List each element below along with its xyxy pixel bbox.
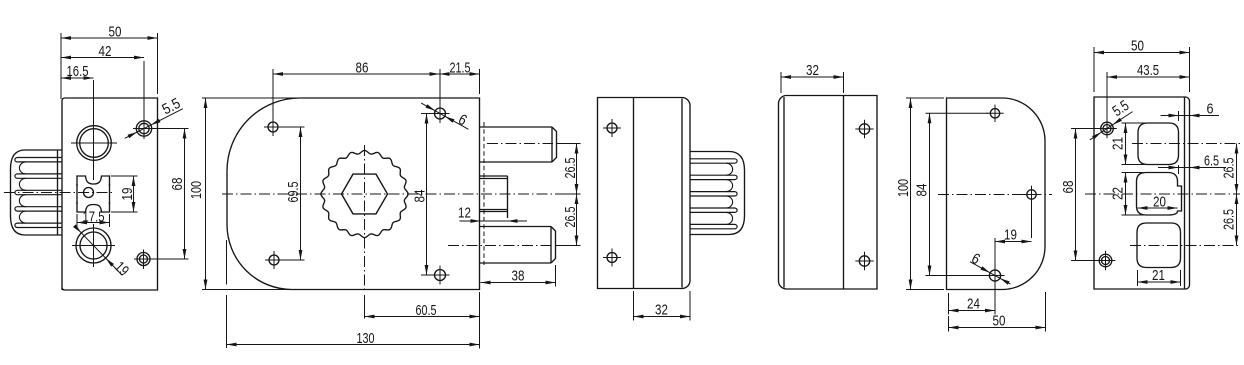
dim 38 <box>555 265 557 287</box>
svg-text:60.5: 60.5 <box>416 302 437 319</box>
svg-text:26.5: 26.5 <box>562 158 579 179</box>
dim 32 view3 <box>633 291 635 321</box>
view5 outline <box>947 98 1046 290</box>
dim 24 view5 <box>948 293 950 315</box>
svg-text:32: 32 <box>655 302 668 319</box>
svg-text:16.5: 16.5 <box>67 63 89 80</box>
svg-text:19: 19 <box>1004 227 1017 244</box>
dim 20 view6 hole2 width <box>1138 207 1178 209</box>
ext 86 left <box>272 69 274 119</box>
view2 case outline <box>227 98 480 290</box>
dim 26.5 view6 top <box>1236 144 1238 195</box>
dim 32 view4 <box>780 72 782 93</box>
view6 fold line <box>1184 98 1186 289</box>
view1 horizontal centerline <box>4 192 114 194</box>
dim 21 view6 hole3 width <box>1137 270 1139 286</box>
dim 69.5 <box>280 126 305 128</box>
svg-text:100: 100 <box>188 181 205 199</box>
view6 screw hole bottom <box>1099 254 1112 267</box>
svg-text:6.5: 6.5 <box>1204 153 1219 170</box>
svg-text:43.5: 43.5 <box>1137 62 1159 79</box>
spindle hub with concave notches <box>77 176 110 186</box>
dim 60.5 <box>479 292 481 349</box>
view1 big bottom circle <box>76 228 111 263</box>
view2 hole bottom-left <box>269 255 279 265</box>
svg-text:68: 68 <box>1060 181 1077 194</box>
svg-text:26.5: 26.5 <box>1221 209 1238 230</box>
leader dia 19 diagonal <box>75 226 122 275</box>
view3 flute ridges <box>690 158 735 160</box>
dim 86 / 21.5 <box>479 69 481 94</box>
svg-text:50: 50 <box>993 313 1006 330</box>
dim 100 view2 <box>205 98 207 290</box>
svg-text:84: 84 <box>412 190 429 203</box>
svg-text:100: 100 <box>895 179 912 197</box>
hole3 centerline <box>1130 245 1240 247</box>
view1 top circle crosshair <box>71 142 117 144</box>
hole1 centerline <box>1132 143 1240 145</box>
bottom bolt centerline <box>448 245 552 247</box>
svg-text:86: 86 <box>356 60 369 77</box>
svg-text:50: 50 <box>109 24 122 41</box>
ext 86/21.5 <box>439 69 441 106</box>
leader dia 5.5 view6 <box>1090 112 1133 140</box>
dim 50 view5 <box>948 316 950 332</box>
svg-text:20: 20 <box>1153 194 1166 211</box>
130-dim extension at left <box>226 240 228 285</box>
bottom circle crosshair <box>72 245 115 247</box>
dim 26.5 bottom <box>556 245 581 247</box>
view3 outline <box>598 98 691 289</box>
top bolt centerline <box>487 143 553 145</box>
scalloped rosette <box>321 150 408 237</box>
view6 hole 2 (middle square) <box>1137 173 1182 216</box>
dim 19 (hub height) <box>111 175 138 177</box>
dim 17.5 (hub width) <box>76 214 78 227</box>
dim 6.5 view6 <box>1158 167 1226 169</box>
view3 plate/case boundary <box>633 98 635 289</box>
view4 plate boundary <box>843 96 845 290</box>
dim 84 view2 <box>421 113 433 115</box>
svg-text:6: 6 <box>1207 101 1214 118</box>
knob flute ridges <box>18 157 63 159</box>
view1 big top circle (cylinder boss) <box>77 126 112 161</box>
svg-text:38: 38 <box>512 268 525 285</box>
svg-text:17.5: 17.5 <box>83 209 105 226</box>
dim 19 view5 <box>994 238 996 268</box>
svg-text:21: 21 <box>1152 267 1165 284</box>
svg-text:21.5: 21.5 <box>450 60 471 77</box>
view5 hole bottom-left <box>989 270 1000 281</box>
view2 hole top-left <box>268 122 278 132</box>
view2 hole bottom-right <box>435 270 446 281</box>
view6 hole 3 (bottom square) <box>1137 223 1181 268</box>
view5 hole right <box>1027 190 1036 199</box>
dim 68 view6 <box>1071 128 1098 130</box>
svg-text:130: 130 <box>357 330 375 347</box>
view1 small hole bottom-right <box>137 253 150 266</box>
view6 screw hole top <box>1101 122 1114 135</box>
top deadbolt <box>480 126 552 128</box>
view3 fluted knob (right) <box>690 152 745 235</box>
extension line 16.5 down through circle to hub <box>93 80 95 180</box>
top edge extension to 100 dim <box>202 97 300 99</box>
svg-text:21: 21 <box>1110 137 1127 150</box>
view1 face plate outline <box>62 98 158 290</box>
hub small circle <box>84 188 94 198</box>
svg-text:50: 50 <box>1131 38 1144 55</box>
svg-text:84: 84 <box>914 184 931 197</box>
view3 flute valley caps <box>726 163 733 175</box>
bottom deadbolt <box>480 226 551 228</box>
svg-text:42: 42 <box>99 43 112 60</box>
view5 hole top <box>990 109 999 118</box>
dim 100 view5 <box>906 97 944 99</box>
bottom edge extension to 100 dim <box>202 289 292 291</box>
view4 screw holes <box>859 124 869 134</box>
dim 12 (latch) <box>460 220 528 222</box>
svg-text:26.5: 26.5 <box>1221 158 1238 179</box>
svg-text:69.5: 69.5 <box>285 182 302 203</box>
view1 small hole top-right <box>136 121 151 136</box>
dim 84 view5 <box>926 112 989 114</box>
view3 screw hole bottom <box>607 253 617 263</box>
hidden dashed line at faceplate <box>483 122 485 265</box>
dim 50 view6 <box>1093 47 1095 92</box>
dim 50 view1 <box>60 33 62 99</box>
svg-text:12: 12 <box>458 205 471 222</box>
svg-text:68: 68 <box>169 178 186 191</box>
knob collar line <box>57 150 59 235</box>
dim 26.5 view6 bottom <box>1236 194 1238 246</box>
svg-text:22: 22 <box>1110 187 1127 200</box>
hole2 centerline <box>1085 193 1240 195</box>
svg-text:24: 24 <box>967 296 980 313</box>
view4 tangent line <box>783 97 785 288</box>
dim 22 view6 hole2 <box>1122 172 1145 174</box>
dim 21 view6 hole1 <box>1122 122 1147 124</box>
middle latch <box>480 175 508 177</box>
leader dia 6 top-right <box>421 103 468 129</box>
view6 plate outline <box>1094 97 1190 289</box>
leader dia 6 view5 <box>970 262 1010 284</box>
knob flute valley caps <box>19 162 26 174</box>
dim 6 view6 <box>1161 115 1220 117</box>
view5 centerline <box>938 194 1052 196</box>
view4 outline <box>779 96 878 290</box>
view2 hole top-right <box>435 108 446 119</box>
dim 16.5 view1 <box>61 77 94 79</box>
hexagon spindle hole <box>342 174 388 214</box>
leader dia 5.5 diagonal <box>125 109 183 139</box>
dim 42 view1 <box>143 61 145 119</box>
view3 rounded-face tangent line <box>681 99 683 288</box>
rosette centerlines <box>222 193 577 195</box>
view3 screw hole top <box>607 123 617 133</box>
dim 43.5 view6 <box>1106 72 1108 120</box>
dim 130 <box>227 344 480 346</box>
svg-text:19: 19 <box>119 188 136 201</box>
dim 26.5 top <box>557 143 581 145</box>
view6 hole 1 (top square) <box>1138 123 1179 165</box>
svg-text:32: 32 <box>806 62 819 79</box>
dim 68 view1 <box>152 128 189 130</box>
fluted knob (side view, left) <box>11 150 63 235</box>
svg-text:26.5: 26.5 <box>562 207 579 228</box>
